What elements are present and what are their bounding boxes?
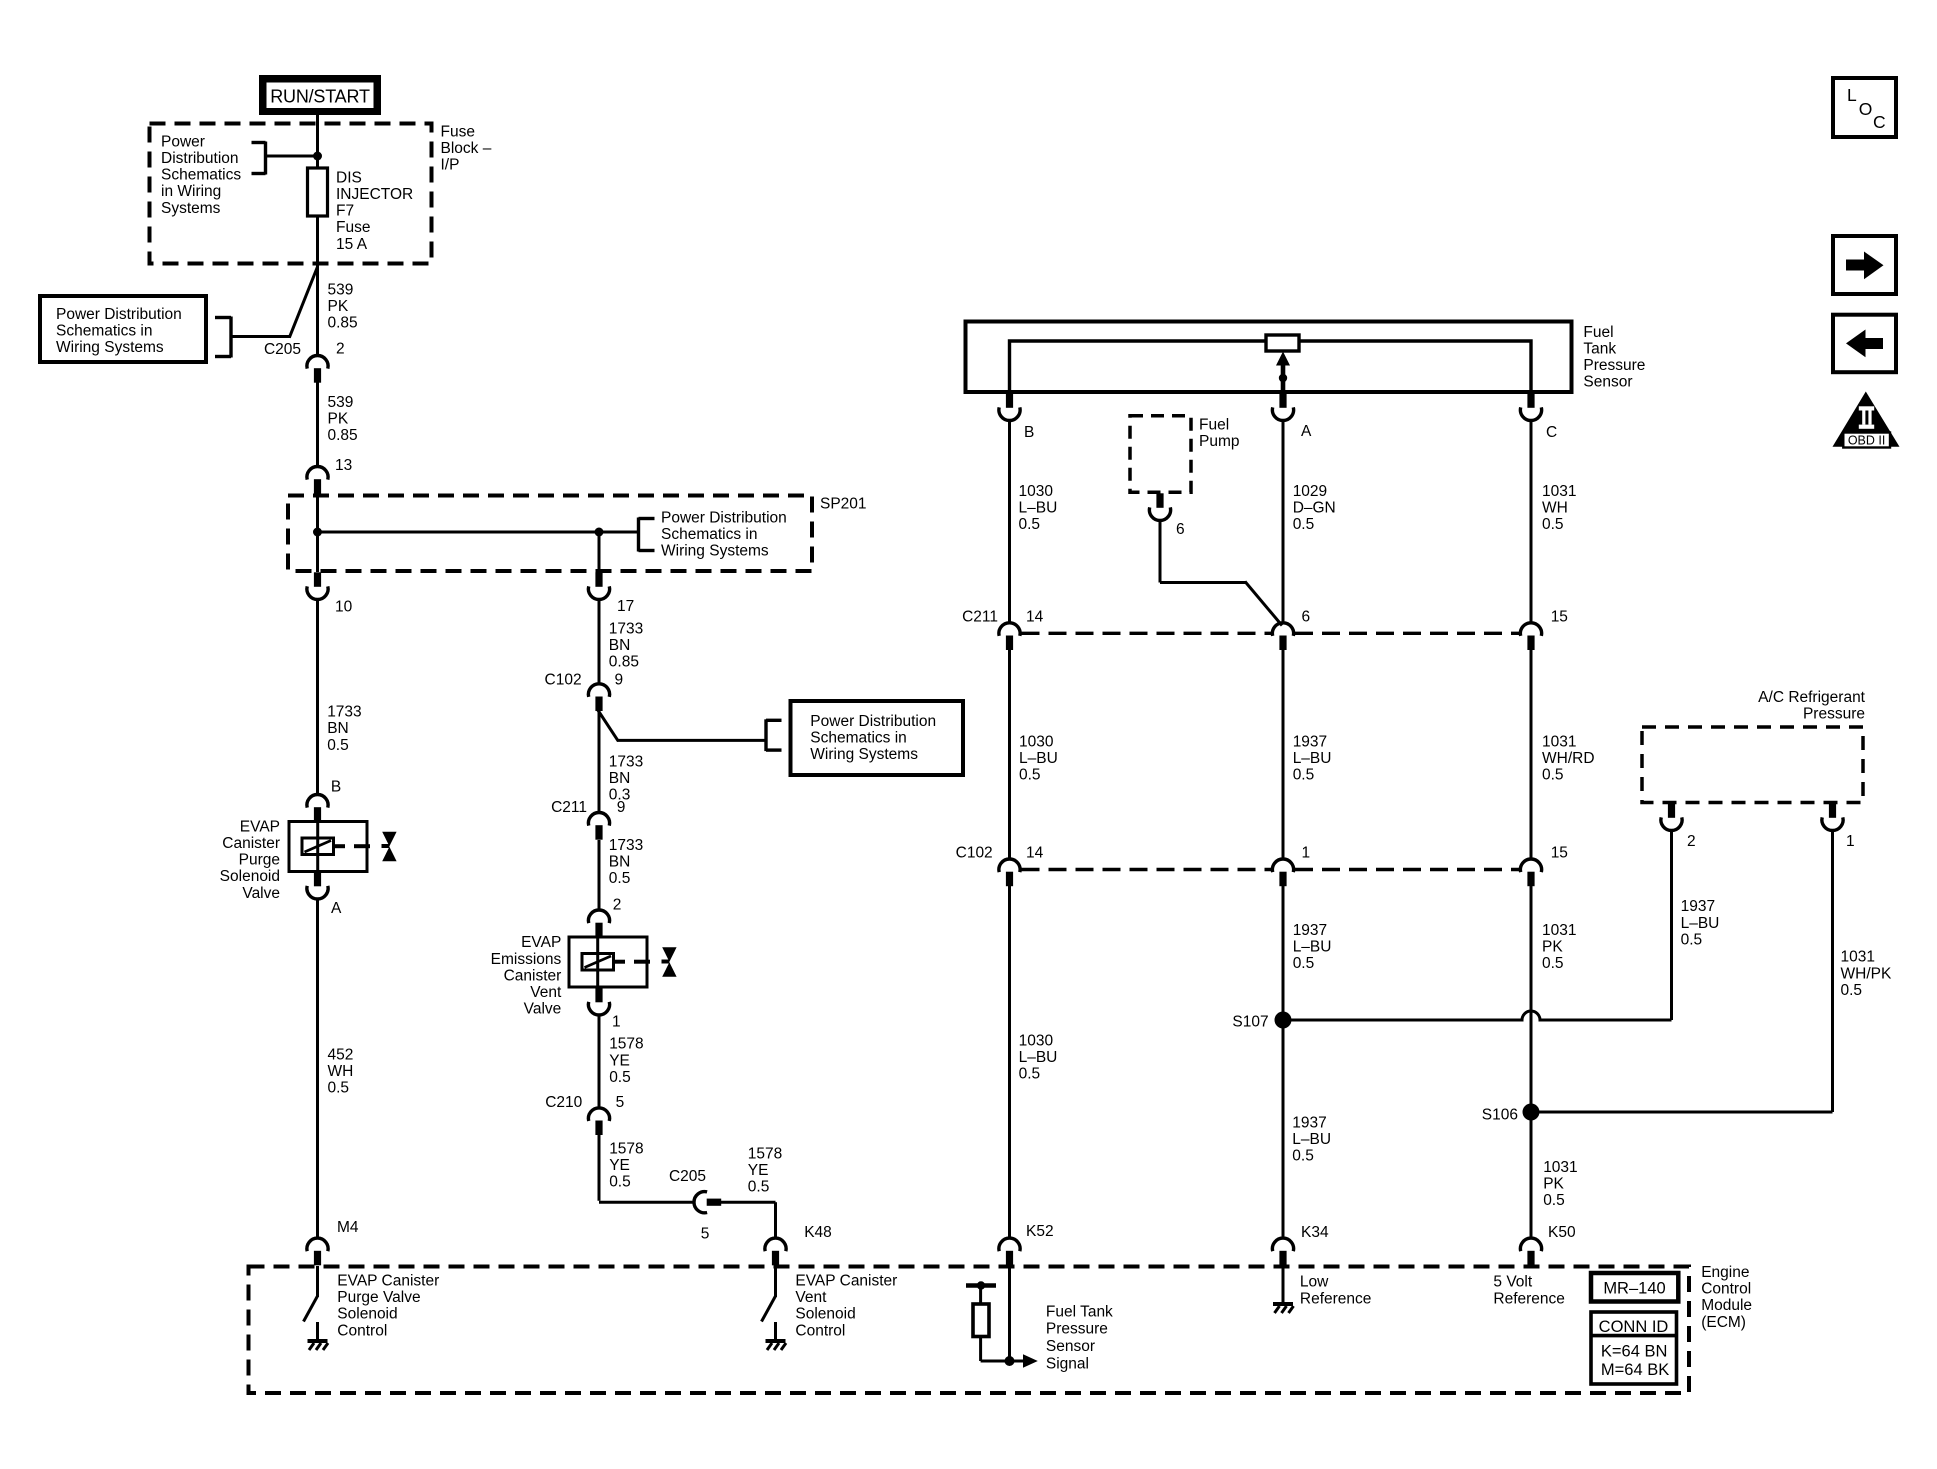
- wire 1578 YE from C210 to C205: [599, 1133, 694, 1202]
- svg-text:Reference: Reference: [1300, 1290, 1372, 1307]
- svg-text:A: A: [1301, 423, 1312, 440]
- connector C211 pin 6: [1272, 623, 1293, 650]
- label 5 Volt Reference: [1493, 1274, 1565, 1308]
- driver switch EVAP vent (K48): [762, 1266, 787, 1350]
- svg-text:0.85: 0.85: [609, 654, 639, 671]
- junction dot SP201 right: [595, 528, 604, 537]
- connector C102 pin 14: [999, 859, 1020, 886]
- svg-text:0.5: 0.5: [1293, 767, 1315, 784]
- wire 1031 PK (C102 to K50): [1530, 886, 1533, 1240]
- label 1030 L-BU 0.5 (mid): [1019, 734, 1058, 784]
- svg-text:Solenoid: Solenoid: [220, 868, 280, 885]
- label 1031 WH/RD 0.5: [1542, 734, 1595, 784]
- svg-text:Wiring Systems: Wiring Systems: [810, 746, 918, 763]
- svg-text:Vent: Vent: [795, 1289, 827, 1306]
- wire 1733 BN 0.3 to C211: [598, 711, 601, 813]
- svg-text:M=64 BK: M=64 BK: [1601, 1361, 1669, 1379]
- svg-text:EVAP Canister: EVAP Canister: [337, 1273, 439, 1290]
- svg-text:Schematics in: Schematics in: [810, 730, 906, 747]
- svg-text:5: 5: [616, 1094, 625, 1111]
- node Power Distribution Schematics in Wiring Systems (right box): [791, 701, 964, 775]
- icon arrow left: [1833, 315, 1896, 373]
- svg-text:C: C: [1873, 112, 1886, 132]
- svg-text:BN: BN: [609, 637, 631, 654]
- connector purge valve pin A: [307, 872, 328, 899]
- svg-text:Tank: Tank: [1583, 341, 1616, 358]
- svg-text:Emissions: Emissions: [491, 951, 562, 968]
- splice S107: [1275, 1011, 1672, 1029]
- svg-text:1733: 1733: [327, 704, 361, 721]
- label 539 PK 0.85 (upper): [328, 281, 358, 331]
- label 452 WH 0.5: [328, 1046, 354, 1096]
- svg-text:EVAP: EVAP: [240, 818, 280, 835]
- svg-text:1733: 1733: [609, 620, 643, 637]
- svg-text:0.5: 0.5: [1019, 767, 1041, 784]
- connector C102 pin 15: [1520, 859, 1541, 886]
- connector purge valve pin B: [307, 794, 328, 821]
- svg-text:Valve: Valve: [242, 885, 280, 902]
- svg-text:Module: Module: [1701, 1297, 1752, 1314]
- svg-text:1: 1: [1302, 845, 1311, 862]
- wire 1937 L-BU (C211 to C102): [1282, 650, 1285, 860]
- connector C211 pin 9: [588, 812, 609, 839]
- engine control module ECM dashed box: [249, 1267, 1690, 1394]
- svg-text:EVAP: EVAP: [521, 934, 561, 951]
- svg-text:Pressure: Pressure: [1046, 1321, 1108, 1338]
- label Engine Control Module (ECM): [1701, 1264, 1752, 1331]
- svg-text:C205: C205: [264, 341, 301, 358]
- svg-text:L–BU: L–BU: [1681, 915, 1720, 932]
- svg-text:Wiring Systems: Wiring Systems: [661, 543, 769, 560]
- connector C210 pin 5: [588, 1108, 609, 1135]
- icon arrow right: [1833, 236, 1896, 294]
- label Fuel Tank Pressure Sensor Signal: [1046, 1303, 1113, 1372]
- label 1031 PK 0.5 (below S106): [1543, 1159, 1577, 1209]
- svg-text:0.5: 0.5: [1293, 516, 1315, 533]
- label 1733 BN 0.5 (left col): [327, 704, 361, 754]
- svg-text:0.5: 0.5: [1542, 516, 1564, 533]
- svg-text:1030: 1030: [1019, 734, 1054, 751]
- svg-text:K52: K52: [1026, 1223, 1054, 1240]
- connector ID table CONN ID K=64 BN M=64 BK: [1591, 1312, 1677, 1384]
- svg-text:DIS: DIS: [336, 169, 362, 186]
- fuel tank pressure sensor B-fuel-tank outer box: [966, 322, 1572, 393]
- svg-text:PK: PK: [1542, 939, 1563, 956]
- svg-text:WH/RD: WH/RD: [1542, 750, 1595, 767]
- svg-text:PK: PK: [1543, 1176, 1564, 1193]
- wire into SP201 left leg: [316, 494, 319, 532]
- svg-text:Power Distribution: Power Distribution: [56, 306, 182, 323]
- svg-text:6: 6: [1176, 521, 1185, 538]
- connector C211 pin 15: [1520, 623, 1541, 650]
- svg-text:2: 2: [1687, 833, 1696, 850]
- svg-text:K50: K50: [1548, 1224, 1576, 1241]
- svg-text:2: 2: [613, 897, 622, 914]
- connector fuel pump pin 6: [1149, 493, 1170, 520]
- svg-text:WH: WH: [328, 1063, 354, 1080]
- svg-text:15 A: 15 A: [336, 236, 368, 253]
- svg-text:BN: BN: [609, 770, 631, 787]
- svg-text:C102: C102: [545, 671, 582, 688]
- svg-text:Schematics: Schematics: [161, 167, 241, 184]
- bracket to Power Distribution ref (fuse block): [252, 142, 318, 175]
- label Fuel Pump: [1199, 416, 1240, 450]
- connector C205 pin 5 (inline): [694, 1192, 721, 1213]
- svg-text:Fuel Tank: Fuel Tank: [1046, 1303, 1113, 1320]
- fuel pump dashed box: [1130, 416, 1191, 493]
- connector C211 pin 14: [999, 623, 1020, 650]
- wire 1030 L-BU (C211 to C102): [1008, 650, 1011, 860]
- svg-text:Engine: Engine: [1701, 1264, 1749, 1281]
- svg-text:YE: YE: [748, 1162, 769, 1179]
- svg-text:Control: Control: [1701, 1281, 1751, 1298]
- svg-text:B: B: [1024, 424, 1034, 441]
- svg-text:0.5: 0.5: [328, 1080, 350, 1097]
- svg-text:L: L: [1847, 85, 1857, 105]
- label A/C Refrigerant Pressure: [1758, 689, 1866, 723]
- sensor signal network (K52): [966, 1266, 1038, 1368]
- svg-text:1031: 1031: [1841, 949, 1875, 966]
- svg-text:1937: 1937: [1293, 922, 1327, 939]
- svg-text:K=64 BN: K=64 BN: [1601, 1343, 1668, 1361]
- connector vent valve pin 2: [588, 910, 609, 937]
- wire 1733 BN 0.85 to C102: [598, 599, 601, 684]
- svg-text:OBD II: OBD II: [1848, 433, 1886, 447]
- svg-text:Block –: Block –: [441, 140, 492, 157]
- svg-text:S106: S106: [1482, 1107, 1518, 1124]
- connector ECM pin K50: [1520, 1238, 1541, 1265]
- wire 1937 L-BU (A/C 2 to S107): [1670, 830, 1673, 1020]
- svg-text:C210: C210: [545, 1094, 582, 1111]
- label 1733 BN 0.3: [609, 753, 643, 803]
- wire fuel pump to C211 pin 6: [1160, 520, 1282, 626]
- svg-text:Schematics in: Schematics in: [56, 323, 152, 340]
- svg-text:1733: 1733: [609, 837, 643, 854]
- junction dot fuse feed: [313, 152, 322, 161]
- connector pin 10: [307, 572, 328, 599]
- svg-text:1733: 1733: [609, 753, 643, 770]
- svg-text:Sensor: Sensor: [1583, 374, 1632, 391]
- svg-text:D–GN: D–GN: [1293, 499, 1336, 516]
- svg-text:SP201: SP201: [820, 496, 867, 513]
- label EVAP Emissions Canister Vent Valve: [491, 934, 562, 1017]
- svg-text:PK: PK: [328, 411, 349, 428]
- svg-text:1937: 1937: [1681, 898, 1715, 915]
- svg-text:WH: WH: [1542, 499, 1568, 516]
- svg-text:452: 452: [328, 1046, 354, 1063]
- icon OBD II triangle: [1833, 392, 1900, 448]
- svg-text:Schematics in: Schematics in: [661, 526, 757, 543]
- svg-text:Fuel: Fuel: [1199, 416, 1229, 433]
- bus wire inside SP201: [318, 531, 639, 534]
- wire RUN/START to fuse: [316, 113, 319, 169]
- label Fuel Tank Pressure Sensor: [1583, 324, 1645, 391]
- label Fuse Block - I/P: [441, 123, 492, 173]
- svg-text:K34: K34: [1301, 1224, 1329, 1241]
- svg-text:Fuse: Fuse: [336, 219, 370, 236]
- wire SP201 right leg down: [598, 532, 601, 572]
- svg-text:1031: 1031: [1542, 734, 1576, 751]
- svg-text:M4: M4: [337, 1219, 359, 1236]
- lead to Power Distribution ref box (right): [598, 710, 782, 751]
- connector row C211 dashed line: [1022, 632, 1272, 635]
- sensor wiper box: [1266, 335, 1299, 351]
- svg-text:Control: Control: [337, 1322, 387, 1339]
- svg-text:C205: C205: [669, 1168, 706, 1185]
- svg-text:L–BU: L–BU: [1019, 750, 1058, 767]
- svg-text:2: 2: [336, 341, 345, 358]
- wire 1733 BN to purge valve: [316, 599, 319, 795]
- svg-text:C211: C211: [962, 609, 998, 626]
- svg-text:Systems: Systems: [161, 200, 221, 217]
- label 1578 YE 0.5 (left of C205): [609, 1141, 643, 1191]
- svg-text:F7: F7: [336, 203, 354, 220]
- svg-text:Low: Low: [1300, 1274, 1329, 1291]
- svg-text:1578: 1578: [609, 1141, 643, 1158]
- label 539 PK 0.85 (lower): [328, 394, 358, 444]
- svg-text:0.5: 0.5: [1681, 931, 1703, 948]
- bracket to Power Distribution ref (SP201): [639, 518, 655, 552]
- label 1030 L-BU 0.5 (bottom): [1019, 1032, 1058, 1082]
- label DIS INJECTOR F7 Fuse 15 A: [336, 169, 413, 252]
- svg-text:1031: 1031: [1542, 483, 1576, 500]
- connector row C102 dashed line: [1022, 868, 1272, 871]
- svg-text:C211: C211: [551, 799, 587, 816]
- wire 1031 WH/PK (A/C 1 to S106): [1831, 830, 1834, 1112]
- node RUN/START (ignition feed): [259, 75, 381, 115]
- svg-text:I/P: I/P: [441, 157, 460, 174]
- svg-text:O: O: [1859, 99, 1873, 119]
- ground low reference (K34): [1273, 1266, 1294, 1313]
- wire 1733 BN 0.5 to vent valve: [598, 840, 601, 911]
- svg-text:0.85: 0.85: [328, 427, 358, 444]
- connector vent valve pin 1: [588, 988, 609, 1015]
- svg-text:0.5: 0.5: [327, 737, 349, 754]
- svg-text:1031: 1031: [1542, 922, 1576, 939]
- svg-text:S107: S107: [1232, 1014, 1268, 1031]
- svg-text:PK: PK: [328, 298, 349, 315]
- wire fuse to C205: [316, 216, 319, 356]
- svg-text:BN: BN: [327, 720, 349, 737]
- bracket and lead to left ref box: [215, 266, 318, 357]
- svg-text:Signal: Signal: [1046, 1355, 1089, 1372]
- connector row C102 dashed line right: [1295, 868, 1519, 871]
- splice pack SP201 dashed box: [288, 496, 812, 572]
- svg-text:RUN/START: RUN/START: [270, 86, 370, 106]
- label 1733 BN 0.85: [609, 620, 643, 670]
- svg-text:Purge Valve: Purge Valve: [337, 1289, 420, 1306]
- svg-text:L–BU: L–BU: [1293, 939, 1332, 956]
- connector pin 17: [588, 572, 609, 599]
- svg-text:INJECTOR: INJECTOR: [336, 186, 413, 203]
- svg-text:Sensor: Sensor: [1046, 1338, 1095, 1355]
- svg-text:15: 15: [1551, 845, 1568, 862]
- svg-text:14: 14: [1026, 845, 1044, 862]
- svg-text:Power Distribution: Power Distribution: [810, 713, 936, 730]
- svg-text:Valve: Valve: [524, 1001, 562, 1018]
- svg-text:Solenoid: Solenoid: [795, 1306, 855, 1323]
- svg-text:A: A: [331, 900, 342, 917]
- svg-text:0.5: 0.5: [1293, 955, 1315, 972]
- svg-text:539: 539: [328, 281, 354, 298]
- svg-text:Vent: Vent: [530, 984, 562, 1001]
- svg-text:L–BU: L–BU: [1293, 750, 1332, 767]
- svg-text:MR–140: MR–140: [1603, 1279, 1665, 1297]
- svg-text:1030: 1030: [1019, 483, 1054, 500]
- svg-text:Canister: Canister: [222, 835, 280, 852]
- wire C205-2 to C205-13: [316, 383, 319, 468]
- svg-text:0.5: 0.5: [1292, 1148, 1314, 1165]
- connector C205 pin 2: [307, 355, 328, 382]
- sensor resistive track: [1010, 341, 1532, 392]
- svg-text:L–BU: L–BU: [1019, 1049, 1058, 1066]
- connector ECM pin K48: [765, 1238, 786, 1265]
- svg-text:0.5: 0.5: [1841, 982, 1863, 999]
- svg-text:0.5: 0.5: [1019, 1066, 1041, 1083]
- wire 1578 YE to C210: [598, 1015, 601, 1109]
- svg-text:Power Distribution: Power Distribution: [661, 509, 787, 526]
- svg-text:K48: K48: [804, 1224, 832, 1241]
- svg-text:1937: 1937: [1293, 734, 1327, 751]
- svg-text:5: 5: [701, 1226, 710, 1243]
- connector ECM pin K52: [999, 1238, 1020, 1265]
- connector row C211 dashed line right: [1295, 632, 1519, 635]
- label EVAP Canister Purge Valve Solenoid Control: [337, 1273, 439, 1340]
- svg-text:0.5: 0.5: [1542, 955, 1564, 972]
- connector ECM pin K34: [1272, 1238, 1293, 1265]
- svg-text:0.5: 0.5: [609, 1174, 631, 1191]
- label 1031 WH 0.5: [1542, 483, 1576, 533]
- connector C102 pin 1: [1272, 859, 1293, 886]
- label 1937 L-BU 0.5 (mid): [1293, 734, 1332, 784]
- svg-text:Power: Power: [161, 133, 205, 150]
- wire 1937 L-BU (C102 to K34): [1282, 886, 1285, 1240]
- svg-text:1578: 1578: [748, 1145, 782, 1162]
- svg-text:Fuel: Fuel: [1583, 324, 1613, 341]
- svg-text:9: 9: [617, 799, 626, 816]
- wire SP201 left leg down: [316, 532, 319, 572]
- svg-text:5 Volt: 5 Volt: [1493, 1274, 1532, 1291]
- label Power Distribution Schematics in Wiring Systems (SP201): [661, 509, 787, 559]
- wire 1030 L-BU (C102 to K52): [1008, 886, 1011, 1240]
- svg-text:YE: YE: [609, 1052, 630, 1069]
- svg-text:13: 13: [335, 457, 352, 474]
- EVAP Canister Purge Solenoid Valve U-purge: [289, 822, 397, 872]
- svg-text:1: 1: [1846, 833, 1855, 850]
- wire 1031 WH/RD (C211 to C102): [1530, 650, 1533, 860]
- svg-text:C102: C102: [956, 845, 993, 862]
- svg-text:BN: BN: [609, 854, 631, 871]
- svg-text:YE: YE: [609, 1157, 630, 1174]
- EVAP Emissions Canister Vent Valve U-vent: [569, 937, 677, 987]
- svg-text:Distribution: Distribution: [161, 150, 239, 167]
- splice S106: [1523, 1104, 1833, 1121]
- svg-text:C: C: [1546, 424, 1557, 441]
- connector sensor pin C: [1520, 393, 1541, 420]
- svg-text:CONN ID: CONN ID: [1599, 1318, 1669, 1336]
- svg-text:1031: 1031: [1543, 1159, 1577, 1176]
- connector sensor pin A: [1272, 393, 1293, 420]
- driver switch EVAP purge (M4): [304, 1266, 329, 1350]
- label 1937 L-BU 0.5 (below S107): [1292, 1114, 1331, 1164]
- svg-text:1578: 1578: [609, 1036, 643, 1053]
- svg-text:0.5: 0.5: [609, 870, 631, 887]
- svg-text:0.5: 0.5: [1542, 767, 1564, 784]
- label 1733 BN 0.5 (mid col): [609, 837, 643, 887]
- svg-text:0.85: 0.85: [328, 315, 358, 332]
- label 1578 YE 0.5 (above C210): [609, 1036, 643, 1086]
- svg-text:EVAP Canister: EVAP Canister: [795, 1273, 897, 1290]
- connector ECM pin M4: [307, 1238, 328, 1265]
- svg-text:1: 1: [612, 1014, 621, 1031]
- svg-text:15: 15: [1551, 609, 1568, 626]
- svg-text:L–BU: L–BU: [1019, 499, 1058, 516]
- wire 1030 L-BU (sensor B to C211): [1008, 420, 1011, 624]
- svg-text:0.5: 0.5: [609, 1069, 631, 1086]
- junction dot SP201 left: [313, 528, 322, 537]
- svg-text:0.5: 0.5: [1543, 1192, 1565, 1209]
- svg-text:A/C Refrigerant: A/C Refrigerant: [1758, 689, 1866, 706]
- svg-text:Fuse: Fuse: [441, 123, 475, 140]
- svg-text:17: 17: [617, 598, 634, 615]
- svg-text:6: 6: [1302, 609, 1311, 626]
- wire 1031 WH (sensor C to C211): [1530, 420, 1533, 624]
- connector sensor pin B: [999, 393, 1020, 420]
- label Low Reference: [1300, 1274, 1372, 1308]
- label 1937 L-BU 0.5 (A/C leg): [1681, 898, 1720, 948]
- A/C Refrigerant Pressure dashed box: [1642, 727, 1863, 803]
- fuse F7 DIS INJECTOR 15 A: [308, 168, 328, 216]
- svg-text:1030: 1030: [1019, 1032, 1054, 1049]
- svg-text:0.5: 0.5: [1019, 516, 1041, 533]
- wire C205 to K48: [719, 1202, 776, 1239]
- svg-text:B: B: [331, 779, 341, 796]
- label 1031 WH/PK 0.5: [1841, 949, 1892, 999]
- svg-text:Purge: Purge: [239, 852, 280, 869]
- svg-text:L–BU: L–BU: [1292, 1131, 1331, 1148]
- svg-text:(ECM): (ECM): [1701, 1314, 1746, 1331]
- label 1937 L-BU 0.5 (above S107): [1293, 922, 1332, 972]
- svg-text:WH/PK: WH/PK: [1841, 965, 1892, 982]
- svg-text:Canister: Canister: [504, 967, 562, 984]
- connector C102 pin 9: [588, 684, 609, 711]
- sensor wiper arrow: [1276, 352, 1290, 393]
- svg-text:Pump: Pump: [1199, 433, 1240, 450]
- svg-text:1029: 1029: [1293, 483, 1327, 500]
- fuse block - I/P dashed box: [150, 124, 432, 264]
- label 1578 YE 0.5 (right of C205): [748, 1145, 782, 1195]
- label 1029 D-GN 0.5: [1293, 483, 1336, 533]
- label 1030 L-BU 0.5 (top): [1019, 483, 1058, 533]
- connector A/C pin 2: [1661, 803, 1682, 830]
- svg-text:Control: Control: [795, 1322, 845, 1339]
- svg-text:10: 10: [335, 599, 353, 616]
- icon LOC box: [1833, 78, 1896, 137]
- wire 452 WH to M4: [316, 899, 319, 1239]
- svg-text:539: 539: [328, 394, 354, 411]
- svg-text:14: 14: [1026, 609, 1044, 626]
- label EVAP Canister Vent Solenoid Control: [795, 1273, 897, 1340]
- svg-text:Pressure: Pressure: [1583, 357, 1645, 374]
- svg-text:Reference: Reference: [1493, 1290, 1565, 1307]
- wire 1029 D-GN (sensor A to C211): [1282, 420, 1285, 624]
- svg-text:9: 9: [615, 671, 624, 688]
- reference tag MR-140: [1591, 1273, 1678, 1302]
- svg-text:Wiring Systems: Wiring Systems: [56, 339, 164, 356]
- svg-text:in Wiring: in Wiring: [161, 183, 221, 200]
- label Power Distribution Schematics in Wiring Systems (fuse block): [161, 133, 241, 216]
- connector C205 pin 13: [307, 466, 328, 493]
